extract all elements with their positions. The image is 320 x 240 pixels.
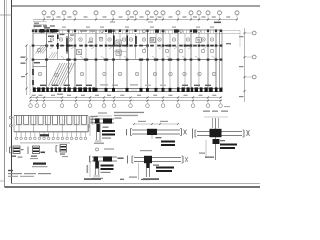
shaft bar 2 <box>135 36 136 44</box>
schedule bubbles left <box>9 116 12 119</box>
stair core marks <box>48 36 54 37</box>
left dim lines <box>26 45 28 95</box>
bottom wall text marks above <box>40 85 46 86</box>
columns unit walls <box>32 45 35 47</box>
detail D3 <box>55 146 57 153</box>
core dark jambs <box>113 36 115 46</box>
stair labels <box>37 48 40 51</box>
interior vertical walls lower <box>85 60 87 89</box>
detail B corner column <box>96 148 99 151</box>
stair landing wall <box>33 66 47 68</box>
corridor south wall <box>33 59 222 61</box>
detail title <box>33 163 46 165</box>
detail C middle column <box>134 123 178 125</box>
room labels bottom row <box>38 72 41 75</box>
right exterior double wall <box>219 30 221 92</box>
bottom wall dense band left <box>33 87 36 92</box>
note text right of A <box>114 112 144 113</box>
top-right stub <box>222 30 240 32</box>
detail A corner column <box>96 115 112 117</box>
top wall dark cluster left <box>35 29 38 32</box>
entrance porch outline <box>34 24 46 30</box>
schedule faint row <box>20 142 70 143</box>
detail D tee column <box>140 150 152 151</box>
room labels mid row <box>142 49 145 52</box>
axis bubbles bottom <box>29 104 33 108</box>
notes <box>8 170 13 171</box>
top exterior wall <box>33 29 222 31</box>
unit partition wall y45.5 segments <box>33 45 47 47</box>
schedule side note <box>91 116 98 117</box>
schedule center label <box>40 134 49 136</box>
columns top wall <box>32 29 34 32</box>
core partition <box>114 51 128 53</box>
entrance labels <box>34 25 42 27</box>
lintel schedule <box>14 115 88 117</box>
window labels above top wall <box>62 27 66 28</box>
stair hatch upper-left <box>36 45 43 54</box>
stair main hatch <box>49 63 61 86</box>
interior vertical walls upper <box>57 34 59 60</box>
top strip labels <box>101 30 104 33</box>
top dimension line <box>33 19 237 21</box>
columns bottom wall mid <box>95 88 98 92</box>
sheet border <box>4 0 6 187</box>
left wall dark segments <box>32 69 34 75</box>
schedule pi modules <box>16 116 18 125</box>
interior vertical walls full <box>32 30 34 92</box>
stair return hatch <box>49 52 54 59</box>
bottom wall dense band right <box>177 87 180 92</box>
title marks <box>84 178 101 180</box>
room labels top row <box>50 38 53 41</box>
detail D1 <box>9 147 11 153</box>
window ticks top wall <box>38 30 40 34</box>
detail E cross column <box>203 111 210 112</box>
axis bubbles right <box>245 32 253 34</box>
axis bubbles top <box>43 15 45 20</box>
fixtures <box>77 50 82 55</box>
bottom exterior wall <box>33 88 222 90</box>
window lines bottom wall <box>98 89 104 91</box>
shaft bar 1 <box>66 39 68 52</box>
bottom dim lines <box>30 97 222 99</box>
schedule bubble row below <box>16 132 18 137</box>
detail D2 <box>27 147 29 155</box>
door arcs <box>50 46 53 49</box>
right dim line <box>244 28 246 102</box>
